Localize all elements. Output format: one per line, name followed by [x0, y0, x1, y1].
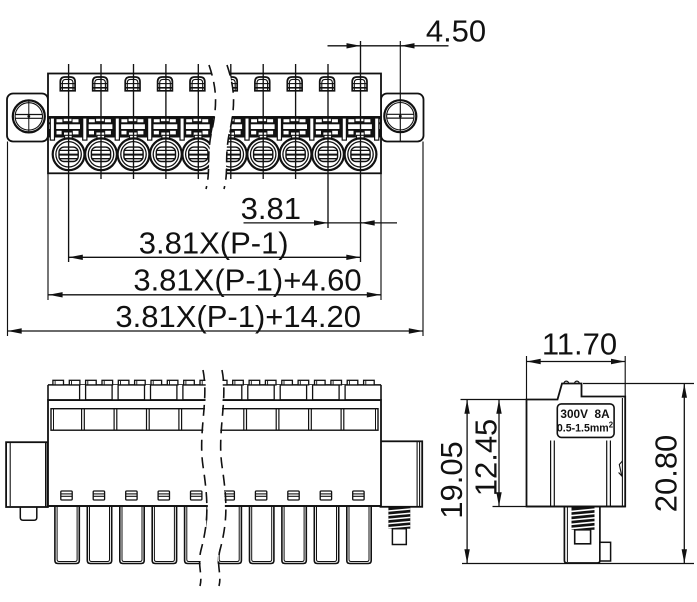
svg-text:3.81: 3.81 — [241, 191, 301, 226]
svg-text:3.81X(P-1)+14.20: 3.81X(P-1)+14.20 — [115, 299, 361, 334]
svg-text:4.50: 4.50 — [426, 13, 486, 48]
svg-text:3.81X(P-1)+4.60: 3.81X(P-1)+4.60 — [133, 263, 361, 298]
svg-text:3.81X(P-1): 3.81X(P-1) — [139, 225, 289, 260]
svg-text:20.80: 20.80 — [649, 435, 684, 513]
svg-text:11.70: 11.70 — [542, 327, 617, 362]
svg-text:12.45: 12.45 — [469, 419, 504, 497]
svg-text:19.05: 19.05 — [434, 441, 469, 519]
svg-text:0.5-1.5mm2: 0.5-1.5mm2 — [557, 421, 614, 435]
svg-text:300V 8A: 300V 8A — [560, 407, 610, 421]
